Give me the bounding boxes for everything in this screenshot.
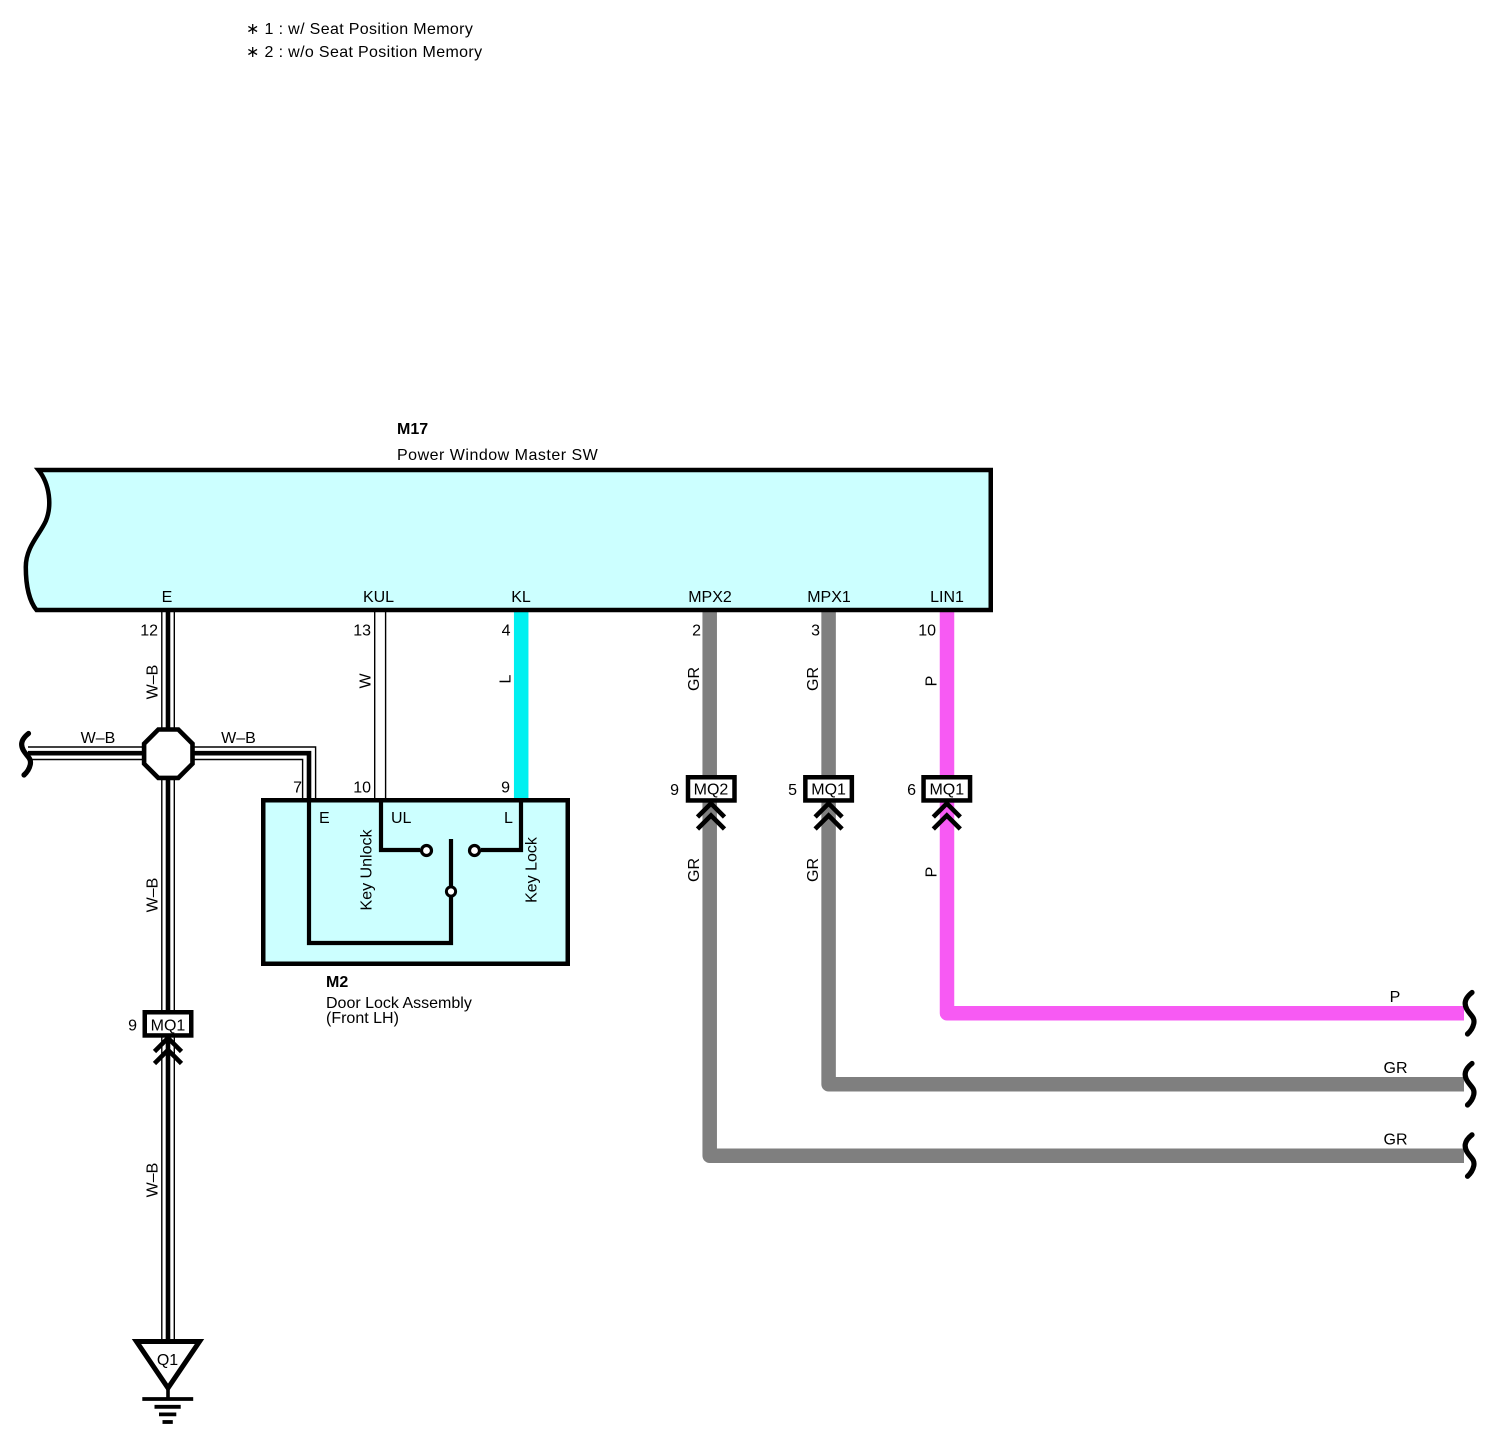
chevron arrows below MQ1 W-B <box>155 1038 182 1064</box>
wire label P right horizontal <box>1390 989 1401 1006</box>
svg-text:W–B: W–B <box>145 665 162 700</box>
wire label GR right horizontal upper <box>1384 1060 1408 1077</box>
svg-text:(Front LH): (Front LH) <box>326 1010 399 1027</box>
svg-text:Key Lock: Key Lock <box>524 836 541 903</box>
svg-text:6: 6 <box>907 782 916 799</box>
svg-text:P: P <box>1390 989 1401 1006</box>
ground triangle Q1 <box>137 1342 200 1389</box>
svg-text:4: 4 <box>502 623 511 640</box>
pin label MPX2 <box>688 589 732 606</box>
svg-text:Key Unlock: Key Unlock <box>359 829 376 911</box>
chevron arrows below MQ1 P <box>933 804 960 830</box>
M2 internal wire from E <box>309 800 451 943</box>
svg-text:MQ1: MQ1 <box>929 782 964 799</box>
note *2 w/o Seat Position Memory <box>246 44 482 61</box>
connector MQ1 on P wire <box>924 777 971 800</box>
connector MQ1 pin number 6 <box>907 782 916 799</box>
wire label GR upper MPX2 <box>686 667 703 691</box>
svg-text:M17: M17 <box>397 421 428 438</box>
break symbol left W-B <box>22 734 31 776</box>
svg-text:10: 10 <box>918 623 936 640</box>
wire label W-B left horizontal <box>81 730 116 747</box>
pin label E <box>162 589 173 606</box>
wire label W-B right horizontal <box>221 730 256 747</box>
wire label L <box>498 674 515 683</box>
svg-text:2: 2 <box>692 623 701 640</box>
svg-text:GR: GR <box>1384 1060 1408 1077</box>
label M17 <box>397 421 428 438</box>
svg-text:5: 5 <box>788 782 797 799</box>
svg-text:3: 3 <box>811 623 820 640</box>
label M2 <box>326 974 348 991</box>
chevron arrows below MQ2 <box>698 804 725 830</box>
svg-text:MQ1: MQ1 <box>811 782 846 799</box>
pin label MPX1 <box>807 589 851 606</box>
connector MQ1 left pin number 9 <box>128 1018 137 1035</box>
wire label W-B middle vertical <box>145 878 162 913</box>
M2 pin number 10 <box>353 780 371 797</box>
connector MQ1 pin number 5 <box>788 782 797 799</box>
wire GR from M17 pin 2 (MPX2) down and right to break <box>710 611 1464 1156</box>
ground bar 2 <box>155 1405 181 1409</box>
M2 UL contact circle <box>422 846 432 856</box>
svg-text:∗ 2 : w/o Seat Position Memory: ∗ 2 : w/o Seat Position Memory <box>246 44 482 61</box>
wire W from M17 pin 13 to M2 pin 10 <box>375 610 386 799</box>
wire W-B vertical from M17 pin 12 to ground <box>162 610 175 1343</box>
wire label GR lower MPX2 <box>686 858 703 882</box>
svg-text:W–B: W–B <box>145 878 162 913</box>
svg-text:KL: KL <box>511 589 531 606</box>
wire W-B horizontal right branch to M2 pin 7 <box>168 747 316 799</box>
break symbol right GR lower <box>1465 1135 1474 1177</box>
M2 switch lever <box>449 839 453 886</box>
svg-text:W–B: W–B <box>221 730 256 747</box>
wire label W <box>358 673 375 689</box>
label Power Window Master SW <box>397 447 599 464</box>
svg-text:P: P <box>924 676 941 687</box>
wire label GR lower MPX1 <box>805 858 822 882</box>
M2 pin label UL <box>391 810 412 827</box>
component M17 Power Window Master SW box <box>26 470 991 610</box>
pin label KL <box>511 589 531 606</box>
svg-text:12: 12 <box>140 623 158 640</box>
svg-text:MPX1: MPX1 <box>807 589 851 606</box>
svg-text:MQ2: MQ2 <box>694 782 729 799</box>
pin label KUL <box>363 589 394 606</box>
svg-text:E: E <box>319 810 330 827</box>
svg-text:MPX2: MPX2 <box>688 589 732 606</box>
wire label GR right horizontal lower <box>1384 1132 1408 1149</box>
M2 pin label E <box>319 810 330 827</box>
M2 internal wire to L <box>481 800 521 850</box>
wire P (pink) from M17 pin 10 (LIN1) down and right to break <box>947 611 1464 1013</box>
svg-text:Power Window Master SW: Power Window Master SW <box>397 447 599 464</box>
pin number 13 <box>353 623 371 640</box>
svg-text:W–B: W–B <box>145 1163 162 1198</box>
svg-text:W–B: W–B <box>81 730 116 747</box>
wire label GR upper MPX1 <box>805 667 822 691</box>
wire L (cyan) from M17 pin 4 to M2 pin 9 <box>514 611 529 799</box>
svg-text:10: 10 <box>353 780 371 797</box>
svg-text:L: L <box>504 810 513 827</box>
M2 pin number 9 <box>501 780 510 797</box>
svg-text:Q1: Q1 <box>157 1352 178 1369</box>
component M2 Door Lock Assembly box <box>263 800 568 964</box>
ground bar 1 <box>142 1397 193 1401</box>
svg-text:M2: M2 <box>326 974 348 991</box>
ground bar 4 <box>163 1420 173 1424</box>
label (Front LH) <box>326 1010 399 1027</box>
svg-text:13: 13 <box>353 623 371 640</box>
svg-text:LIN1: LIN1 <box>930 589 964 606</box>
label Door Lock Assembly <box>326 995 472 1012</box>
svg-text:GR: GR <box>686 858 703 882</box>
chevron arrows below MQ1 MPX1 <box>815 804 842 830</box>
note *1 w/ Seat Position Memory <box>246 21 473 38</box>
connector MQ1 on MPX1 GR wire <box>805 777 852 800</box>
svg-text:9: 9 <box>670 782 679 799</box>
svg-text:GR: GR <box>1384 1132 1408 1149</box>
svg-text:GR: GR <box>686 667 703 691</box>
svg-text:W: W <box>358 673 375 689</box>
wire W-B horizontal left branch to break <box>28 747 168 760</box>
svg-text:P: P <box>924 867 941 878</box>
ground stub <box>166 1388 170 1399</box>
ground bar 3 <box>159 1413 176 1417</box>
break symbol right GR upper <box>1465 1064 1474 1106</box>
M2 pin number 7 <box>293 780 302 797</box>
svg-text:UL: UL <box>391 810 412 827</box>
pin number 3 <box>811 623 820 640</box>
svg-text:MQ1: MQ1 <box>151 1018 186 1035</box>
wire label P upper LIN1 <box>924 676 941 687</box>
wire label W-B upper vertical <box>145 665 162 700</box>
svg-text:7: 7 <box>293 780 302 797</box>
junction node octagon <box>144 730 192 778</box>
M2 label Key Lock <box>524 836 541 903</box>
connector MQ1 on W-B wire <box>145 1012 192 1035</box>
M2 internal wire from UL <box>381 800 420 850</box>
svg-text:∗ 1 : w/ Seat Position Memory: ∗ 1 : w/ Seat Position Memory <box>246 21 473 38</box>
M2 pin label L <box>504 810 513 827</box>
svg-text:9: 9 <box>501 780 510 797</box>
M2 switch common contact circle <box>446 887 455 896</box>
svg-text:GR: GR <box>805 858 822 882</box>
pin number 2 <box>692 623 701 640</box>
svg-text:KUL: KUL <box>363 589 394 606</box>
pin number 12 <box>140 623 158 640</box>
pin label LIN1 <box>930 589 964 606</box>
break symbol right P <box>1465 993 1474 1035</box>
wire label W-B lower vertical <box>145 1163 162 1198</box>
svg-text:E: E <box>162 589 173 606</box>
pin number 10 <box>918 623 936 640</box>
pin number 4 <box>502 623 511 640</box>
svg-text:GR: GR <box>805 667 822 691</box>
M2 label Key Unlock <box>359 829 376 911</box>
svg-text:9: 9 <box>128 1018 137 1035</box>
M2 L contact circle <box>470 846 480 856</box>
connector MQ2 pin number 9 <box>670 782 679 799</box>
svg-text:L: L <box>498 674 515 683</box>
connector MQ2 on GR wire <box>688 777 735 800</box>
wire label P lower LIN1 <box>924 867 941 878</box>
wire GR from M17 pin 3 (MPX1) down and right to break <box>829 611 1464 1084</box>
